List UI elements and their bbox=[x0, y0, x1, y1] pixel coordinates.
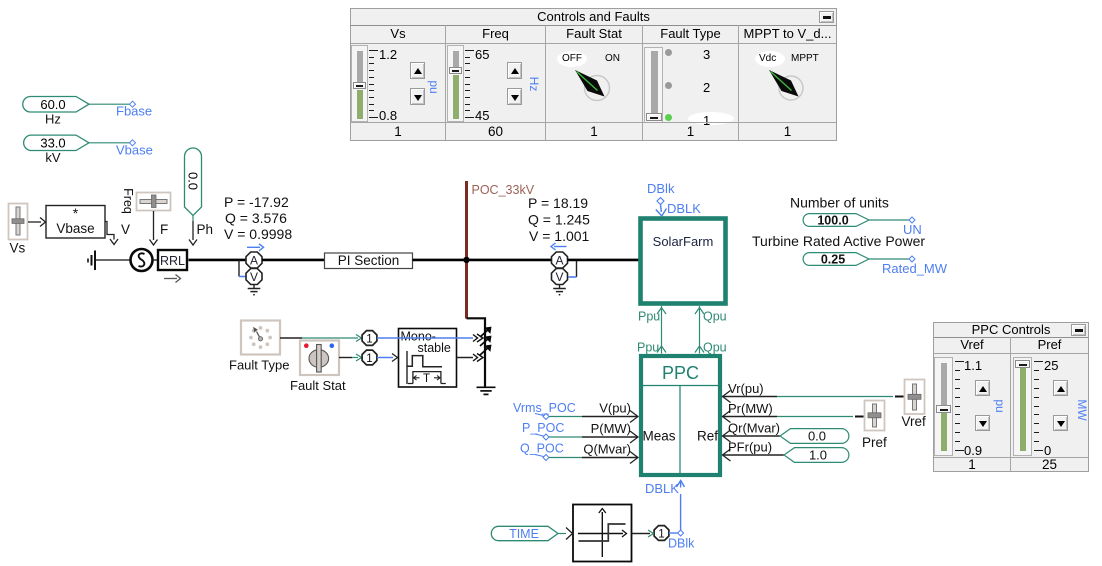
octagon tap 1b bbox=[362, 350, 377, 365]
ammeter A1 bbox=[246, 252, 262, 268]
slider control Freq bbox=[447, 45, 464, 122]
scale labels Pref bbox=[1044, 358, 1058, 373]
wire Qpu SolarFarm to PPC bbox=[695, 306, 704, 354]
current arrow left (blue) bbox=[551, 243, 567, 250]
constant pill 0.25 bbox=[803, 253, 869, 267]
constant pill 0.0 bbox=[780, 429, 849, 444]
measurement text POC side bbox=[528, 195, 590, 244]
slider control Vref bbox=[934, 357, 953, 456]
node label P_POC bbox=[522, 421, 564, 440]
svg-text:Ph: Ph bbox=[197, 222, 214, 237]
wire tap to DBlk diamond bbox=[669, 532, 678, 534]
svg-text:V: V bbox=[555, 270, 563, 284]
transmission line PI Section bbox=[325, 253, 413, 269]
ammeter A2 bbox=[552, 252, 568, 268]
svg-text:Number of units: Number of units bbox=[790, 195, 889, 211]
wire Vr(pu) bbox=[723, 391, 904, 403]
unit Hz bbox=[527, 74, 541, 94]
slider control Vs bbox=[351, 45, 368, 122]
unit MW bbox=[1075, 398, 1089, 422]
svg-text:0.25: 0.25 bbox=[821, 253, 845, 267]
svg-text:Ppu: Ppu bbox=[637, 341, 659, 355]
svg-text:V(pu): V(pu) bbox=[599, 401, 631, 416]
wire monostable to fault bbox=[457, 354, 484, 362]
svg-text:P(MW): P(MW) bbox=[591, 421, 631, 436]
control panel PPC Controls bbox=[933, 322, 1089, 472]
wire Qr(Mvar) bbox=[723, 430, 781, 442]
down button Freq bbox=[507, 88, 522, 105]
ground under V1 bbox=[248, 285, 261, 295]
wire F output bbox=[150, 211, 158, 245]
node label Vrms_POC bbox=[513, 401, 576, 420]
octagon tap 1a bbox=[362, 331, 377, 346]
dial selector Fault Type bbox=[241, 321, 280, 355]
svg-text:Ref: Ref bbox=[697, 429, 718, 444]
svg-text:Vrms_POC: Vrms_POC bbox=[513, 401, 576, 415]
bus POC_33kV bbox=[465, 181, 468, 319]
svg-text:100.0: 100.0 bbox=[817, 214, 848, 228]
svg-text:Q_POC: Q_POC bbox=[520, 442, 564, 456]
control panel Controls and Faults bbox=[350, 8, 837, 141]
svg-text:Vs: Vs bbox=[10, 241, 26, 256]
signal DBlk into SolarFarm bbox=[647, 181, 701, 216]
wire elbow to voltmeter V2 bbox=[569, 260, 577, 277]
current arrow (blue) bbox=[247, 244, 264, 251]
svg-text:V: V bbox=[250, 270, 258, 284]
scale labels Vs bbox=[379, 47, 397, 62]
panel title bar bbox=[351, 9, 836, 26]
slider icon Vref bbox=[902, 380, 927, 430]
svg-text:T: T bbox=[423, 373, 430, 385]
wire Q(Mvar) input bbox=[549, 452, 638, 464]
constant pill 1.0 bbox=[784, 448, 849, 463]
svg-text:Freq: Freq bbox=[121, 188, 135, 214]
svg-text:1: 1 bbox=[658, 529, 664, 541]
node diamond Fbase bbox=[130, 101, 136, 107]
slider control Pref bbox=[1013, 357, 1032, 456]
down button Vs bbox=[410, 88, 425, 105]
node diamond UN bbox=[909, 217, 915, 223]
wire to Fbase bbox=[89, 103, 130, 105]
svg-text:Pref: Pref bbox=[862, 435, 887, 450]
wire ground to source bbox=[95, 259, 130, 261]
selector control Fault Type bbox=[644, 47, 663, 123]
switch control MPPT bbox=[755, 51, 785, 67]
unit pu bbox=[993, 396, 1007, 416]
svg-text:Vr(pu): Vr(pu) bbox=[728, 381, 764, 396]
switch control Fault Stat bbox=[557, 51, 587, 67]
header Fault Stat bbox=[546, 25, 643, 44]
svg-text:Ppu: Ppu bbox=[638, 310, 660, 324]
svg-text:PPC: PPC bbox=[662, 363, 699, 383]
svg-text:Qr(Mvar): Qr(Mvar) bbox=[728, 421, 780, 436]
svg-text:PFr(pu): PFr(pu) bbox=[728, 440, 772, 455]
bus wire PI to A2 bbox=[413, 259, 553, 262]
wire to Rated_MW bbox=[869, 258, 910, 260]
measurement text source side bbox=[224, 194, 292, 242]
svg-text:Q = 3.576: Q = 3.576 bbox=[225, 210, 287, 226]
slider icon Freq bbox=[137, 193, 171, 211]
svg-text:Q = 1.245: Q = 1.245 bbox=[528, 212, 590, 228]
wire V output bbox=[105, 222, 118, 245]
constant pill 33.0 kV bbox=[24, 135, 89, 165]
svg-text:0.0: 0.0 bbox=[186, 172, 201, 190]
wire source to RRL bbox=[153, 259, 158, 261]
svg-text:1: 1 bbox=[366, 334, 372, 346]
body cell borders bbox=[351, 44, 446, 122]
up button Pref bbox=[1053, 380, 1068, 396]
node diamond Vbase bbox=[130, 140, 136, 146]
wire comparator to tap bbox=[632, 530, 654, 537]
multiplier block Vbase bbox=[46, 205, 105, 238]
svg-text:POC_33kV: POC_33kV bbox=[472, 183, 535, 197]
svg-text:Qpu: Qpu bbox=[703, 310, 727, 324]
slider icon Vs bbox=[9, 204, 28, 256]
svg-text:A: A bbox=[250, 254, 258, 268]
scale labels Freq bbox=[475, 47, 489, 62]
octagon tap 1 (DBlk) bbox=[654, 526, 669, 541]
junction node bbox=[463, 257, 469, 263]
value cells bbox=[351, 122, 446, 140]
up button Freq bbox=[507, 62, 522, 79]
slider icon Pref bbox=[862, 401, 887, 451]
svg-text:DBLK: DBLK bbox=[667, 201, 701, 216]
wire to UN bbox=[869, 219, 910, 221]
fault branch from bus bbox=[467, 318, 486, 386]
minimize button bbox=[1071, 324, 1086, 336]
constant pill Ph 0.0 bbox=[185, 148, 202, 216]
svg-text:Pr(MW): Pr(MW) bbox=[728, 401, 773, 416]
minimize button bbox=[819, 11, 834, 23]
bus wire A1 to PI bbox=[262, 259, 324, 262]
svg-text:*: * bbox=[73, 205, 79, 221]
svg-text:DBlk: DBlk bbox=[668, 537, 695, 551]
svg-text:Hz: Hz bbox=[45, 112, 61, 127]
bus wire RRL to A1 bbox=[189, 259, 247, 262]
wire Vs to multiplier bbox=[28, 218, 46, 227]
voltmeter V1 bbox=[246, 269, 262, 285]
svg-text:Vbase: Vbase bbox=[56, 221, 94, 236]
header Vs bbox=[351, 25, 446, 44]
up button Vs bbox=[410, 62, 425, 79]
header Fault Type bbox=[643, 25, 739, 44]
svg-text:V = 0.9998: V = 0.9998 bbox=[224, 226, 292, 242]
header Pref bbox=[1011, 337, 1088, 354]
svg-text:A: A bbox=[555, 254, 563, 268]
constant pill 100.0 bbox=[803, 214, 869, 228]
wire tap 1a to fault (passes over monostable) bbox=[377, 334, 483, 342]
svg-text:stable: stable bbox=[418, 341, 451, 355]
down button Vref bbox=[975, 415, 990, 431]
node diamond DBlk bbox=[678, 530, 684, 536]
header Freq bbox=[446, 25, 546, 44]
scale labels Vref bbox=[964, 358, 982, 373]
svg-text:Vref: Vref bbox=[902, 414, 927, 429]
unit pu bbox=[427, 77, 441, 97]
svg-text:0.0: 0.0 bbox=[808, 429, 826, 444]
svg-text:Fault Type: Fault Type bbox=[229, 358, 289, 373]
flow arrow under RRL bbox=[164, 275, 181, 283]
svg-text:RRL: RRL bbox=[160, 254, 185, 268]
svg-text:Meas: Meas bbox=[642, 429, 675, 444]
svg-text:DBLK: DBLK bbox=[645, 481, 679, 496]
wire Fault Stat to tap 1b bbox=[339, 354, 362, 361]
subsystem SolarFarm bbox=[641, 219, 726, 304]
svg-text:DBlk: DBlk bbox=[647, 181, 675, 196]
svg-text:33.0: 33.0 bbox=[40, 136, 65, 151]
wire Pr(MW) bbox=[723, 411, 864, 423]
svg-text:Q(Mvar): Q(Mvar) bbox=[583, 442, 631, 457]
ground under V2 bbox=[553, 285, 566, 295]
svg-text:Rated_MW: Rated_MW bbox=[882, 261, 948, 276]
svg-text:TIME: TIME bbox=[509, 527, 539, 541]
monostable block bbox=[399, 329, 457, 388]
svg-text:P_POC: P_POC bbox=[522, 421, 564, 435]
voltmeter V2 bbox=[552, 269, 568, 285]
svg-text:Fbase: Fbase bbox=[116, 104, 152, 119]
svg-text:V: V bbox=[121, 222, 130, 237]
wire TIME to comparator bbox=[558, 528, 573, 540]
svg-text:P = -17.92: P = -17.92 bbox=[224, 194, 289, 210]
source bbox=[131, 249, 153, 271]
ground (source) bbox=[88, 251, 95, 271]
svg-text:V = 1.001: V = 1.001 bbox=[529, 228, 590, 244]
value cells bbox=[934, 457, 1011, 472]
svg-text:kV: kV bbox=[45, 150, 61, 165]
panel title bar bbox=[934, 323, 1088, 338]
svg-text:60.0: 60.0 bbox=[40, 97, 65, 112]
wire Fault Type to tap 1a bbox=[280, 335, 362, 342]
wire Ph output bbox=[189, 216, 197, 246]
svg-text:P = 18.19: P = 18.19 bbox=[528, 195, 588, 211]
source impedance RRL bbox=[158, 250, 187, 270]
node label Q_POC bbox=[520, 442, 564, 461]
svg-text:1: 1 bbox=[366, 353, 372, 365]
svg-text:Turbine Rated Active Power: Turbine Rated Active Power bbox=[752, 233, 925, 249]
ground (fault) bbox=[477, 387, 496, 394]
comparator block (TIME step) bbox=[573, 505, 632, 562]
rotary switch Fault Stat bbox=[300, 341, 339, 376]
fault phase arrows bbox=[480, 328, 491, 355]
constant pill 60.0 Hz bbox=[23, 97, 89, 127]
header MPPT bbox=[739, 25, 836, 44]
wire tap 1b to monostable bbox=[377, 354, 398, 362]
svg-text:Vbase: Vbase bbox=[116, 143, 153, 158]
header Vref bbox=[934, 337, 1011, 354]
svg-text:1.0: 1.0 bbox=[809, 448, 827, 463]
wire to Vbase bbox=[89, 142, 130, 144]
svg-text:Fault Stat: Fault Stat bbox=[290, 378, 346, 393]
wire P(MW) input bbox=[549, 431, 638, 443]
wire V(pu) input bbox=[549, 411, 638, 423]
constant pill TIME bbox=[491, 526, 558, 541]
up button Vref bbox=[975, 380, 990, 396]
svg-text:PI Section: PI Section bbox=[338, 253, 400, 268]
signal DBLK under PPC bbox=[645, 481, 685, 532]
svg-text:F: F bbox=[160, 222, 168, 237]
down button Pref bbox=[1053, 415, 1068, 431]
wire PFr(pu) bbox=[723, 449, 785, 461]
controller block PPC bbox=[641, 356, 720, 475]
svg-text:SolarFarm: SolarFarm bbox=[653, 234, 714, 249]
svg-text:Qpu: Qpu bbox=[703, 341, 727, 355]
node diamond Rated_MW bbox=[909, 256, 915, 262]
wire Ppu SolarFarm to PPC bbox=[657, 306, 666, 354]
bus wire A2 to SolarFarm bbox=[568, 259, 641, 262]
wire elbow to voltmeter V1 bbox=[239, 260, 246, 277]
